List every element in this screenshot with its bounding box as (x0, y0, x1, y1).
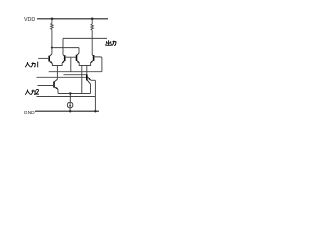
wire current source join line (58, 93, 91, 95)
wire Q2 collector vertical (62, 38, 64, 55)
resistor R1 (51, 19, 53, 48)
wire lineA long horizontal (37, 76, 87, 78)
circuit schematic: Gilbert-cell style differential amplifier (0, 0, 138, 120)
wire Q5 emitter down (57, 89, 59, 93)
resistor R2 (91, 19, 93, 55)
VDD rail (37, 18, 108, 20)
wire GND leg vertical (94, 80, 96, 111)
transistor Q4 (mirrored) (90, 55, 93, 63)
wire Q6 emitter down to join line (90, 84, 92, 94)
label 入力1 (25, 62, 38, 68)
wire Q6 collector wire right (91, 79, 96, 81)
wire node A horizontal (52, 47, 79, 49)
wire L1a cross line (Q2Q3Q4 bases) (49, 71, 102, 73)
wire tail A (56, 66, 58, 80)
transistor Q5 (54, 79, 58, 89)
wire Q2-Q3 base tie (65, 56, 77, 58)
wire L1b line (Q6 base) (64, 74, 87, 76)
wire join B drop to Q6 (86, 66, 88, 75)
transistor Q3 (77, 53, 80, 63)
wire Q1 collector vertical (51, 48, 53, 54)
node dot A (51, 47, 53, 49)
wire riser base tie to L1a (70, 57, 72, 71)
node dot VDD left (51, 18, 54, 21)
wire tail B to current source line (81, 66, 83, 94)
current source I (67, 94, 73, 112)
transistor Q1 (49, 54, 52, 64)
label 出力 (106, 40, 116, 45)
wire lower long line (37, 96, 96, 98)
wire Q3 collector vertical (78, 48, 80, 54)
svg-text:GND: GND (24, 110, 35, 116)
svg-text:VDD: VDD (24, 17, 35, 23)
wire emitter join A (52, 63, 62, 65)
node dot join line (69, 92, 71, 94)
label 入力2 (25, 89, 39, 94)
wire input1 to Q1 base (38, 57, 49, 59)
node dot VDD right (91, 18, 94, 21)
wire Q4 base to loop (94, 57, 102, 72)
node dot GND current source (69, 110, 71, 112)
wire output line (63, 37, 107, 39)
wire emitter join B (79, 63, 90, 66)
GND rail (35, 110, 99, 112)
wire input2 to Q5 base (38, 85, 55, 87)
node dot GND right leg (94, 110, 96, 112)
transistor Q6 (87, 74, 91, 84)
transistor Q2 (mirrored) (62, 55, 65, 63)
